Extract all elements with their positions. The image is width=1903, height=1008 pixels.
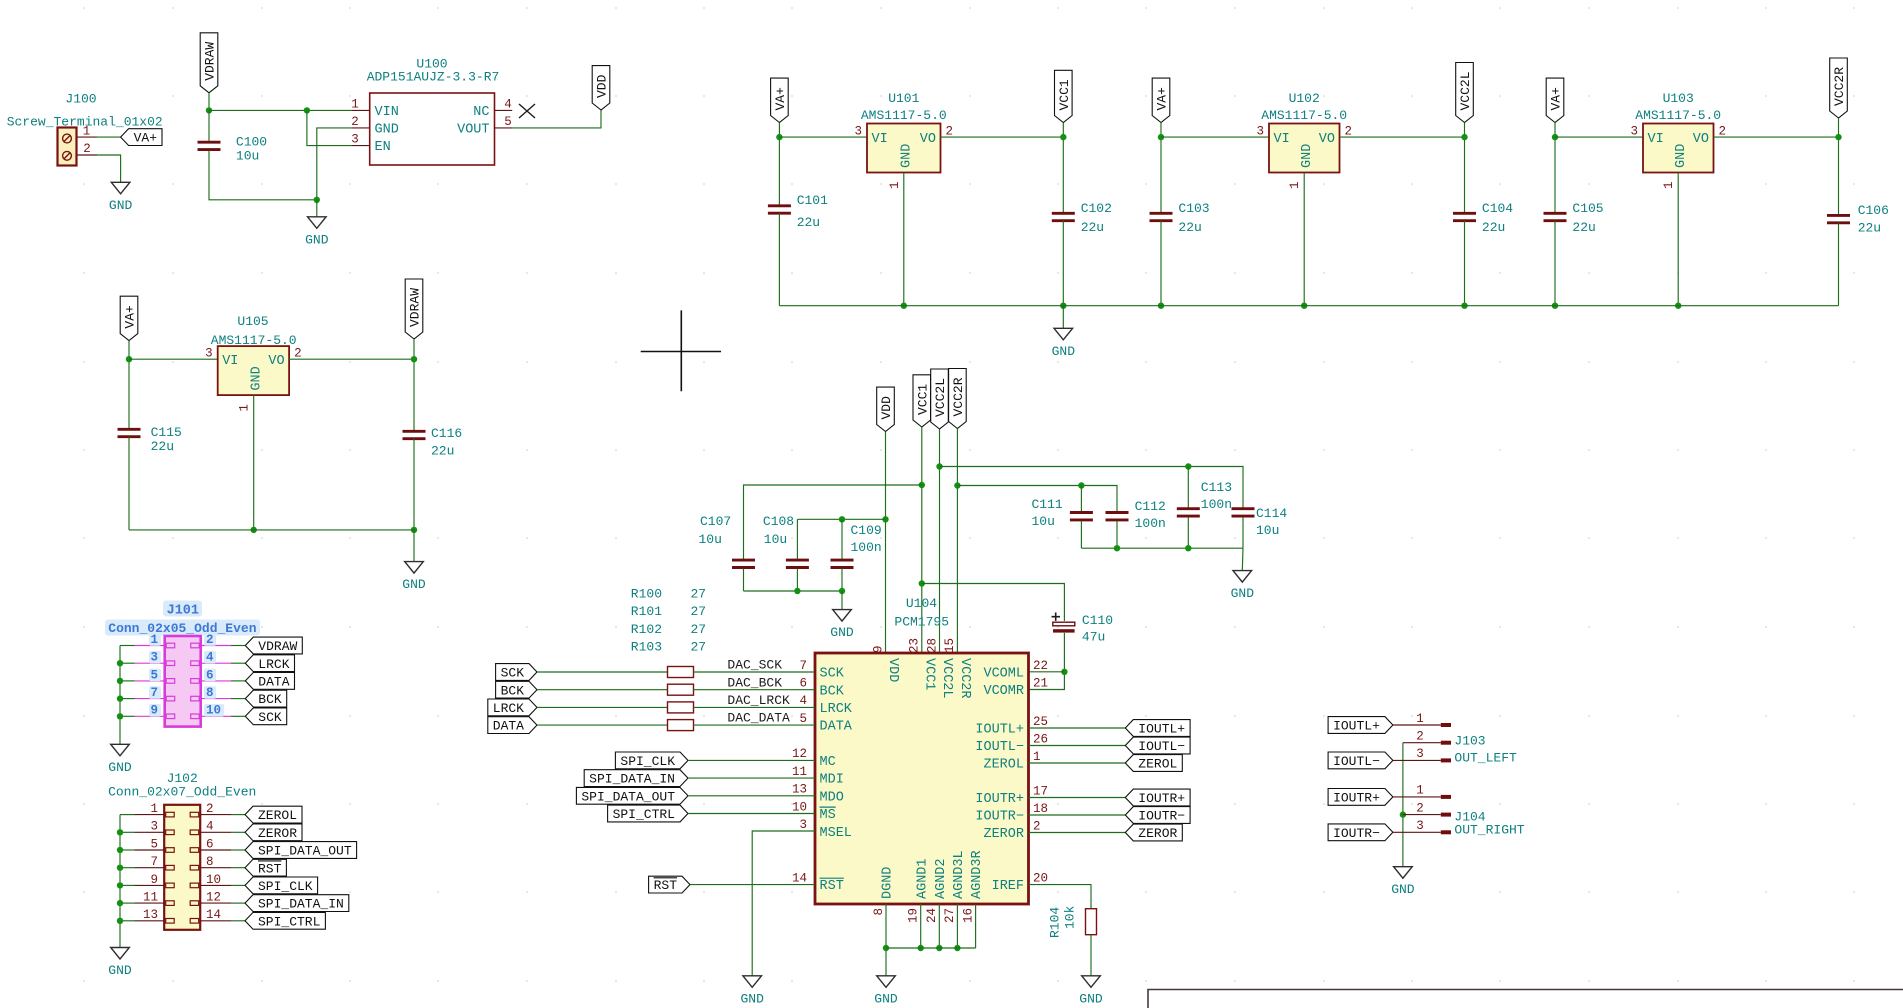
wire J101 to label DATA	[231, 680, 245, 682]
U100 pin 5 stub (VOUT)	[495, 127, 513, 129]
svg-text:27: 27	[691, 640, 707, 655]
J104 pin 2 bar	[1441, 813, 1451, 817]
regulator U101 body	[867, 124, 941, 173]
svg-text:18: 18	[1033, 802, 1048, 816]
svg-text:U104: U104	[906, 596, 937, 611]
svg-text:VA+: VA+	[134, 131, 158, 146]
svg-text:BCK: BCK	[258, 692, 282, 707]
svg-text:C114: C114	[1256, 506, 1287, 521]
power label VCC1 (U104)	[913, 375, 931, 427]
wire J100 pin1 to VA+	[97, 136, 121, 138]
svg-text:AMS1117-5.0: AMS1117-5.0	[1261, 108, 1347, 123]
svg-text:MC: MC	[820, 755, 836, 770]
wire resistor to U104 SCK	[693, 671, 815, 673]
svg-text:3: 3	[150, 820, 158, 834]
capacitor C110 top plate (polarized)	[1053, 622, 1075, 626]
svg-text:R103: R103	[631, 640, 662, 655]
wire J102 to label SPI_CTRL	[231, 920, 245, 922]
svg-text:5: 5	[799, 712, 807, 726]
svg-text:2: 2	[294, 347, 302, 361]
global label VA+ (J100)	[121, 129, 162, 146]
wire VCC2L to C113/C114	[940, 467, 1244, 508]
svg-text:GND: GND	[1391, 882, 1415, 897]
J101 pin 10 stub	[201, 715, 231, 717]
global label IOUTL+ (J103)	[1328, 717, 1393, 734]
svg-text:VA+: VA+	[773, 87, 788, 111]
power label VA+ (rail 3)	[1546, 78, 1564, 122]
J102 pin 3 stub	[135, 831, 165, 833]
capacitor C101	[768, 204, 791, 207]
svg-text:DATA: DATA	[258, 675, 289, 690]
wire U105 gnd stub	[413, 530, 415, 562]
global label VDRAW (J101)	[245, 637, 302, 654]
svg-text:C107: C107	[700, 514, 731, 529]
svg-text:14: 14	[206, 908, 221, 922]
wire VCC1 down to U104 pin 23	[921, 427, 923, 653]
power label VA+ (rail 2)	[1152, 78, 1170, 122]
svg-text:2: 2	[946, 125, 954, 139]
wire VA+ 3 vertical lower	[1554, 221, 1556, 306]
svg-text:LRCK: LRCK	[258, 657, 289, 672]
svg-text:22u: 22u	[151, 439, 174, 454]
J100 pin 2 stub	[77, 154, 97, 156]
svg-text:27: 27	[691, 622, 707, 637]
svg-text:27: 27	[691, 604, 707, 619]
global label IOUTR+ (at U104)	[1125, 789, 1190, 806]
J101 pin 6 number (highlighted)	[204, 669, 216, 682]
wire C107 to VCC1	[744, 485, 922, 559]
svg-text:GND: GND	[830, 625, 854, 640]
power label VCC1 (rail)	[1055, 70, 1073, 122]
global label IOUTR− (at U104)	[1125, 807, 1190, 824]
svg-text:6: 6	[206, 837, 214, 851]
svg-text:VDRAW: VDRAW	[408, 288, 423, 327]
wire J102 to label SPI_DATA_OUT	[231, 849, 245, 851]
svg-text:10u: 10u	[1032, 514, 1055, 529]
svg-text:Conn_02x05_Odd_Even: Conn_02x05_Odd_Even	[108, 621, 256, 636]
svg-text:23: 23	[908, 638, 922, 653]
wire AGND bus	[886, 947, 976, 949]
wire VA+ 1 to U101 VI	[779, 136, 867, 138]
junction U101 gnd at rail	[901, 303, 907, 309]
svg-text:C111: C111	[1032, 497, 1063, 512]
svg-text:U103: U103	[1663, 91, 1694, 106]
J101 pin 2 stub	[201, 645, 231, 647]
svg-text:SCK: SCK	[501, 666, 525, 681]
global label ZEROR (at U104)	[1125, 824, 1182, 841]
power label VDRAW (top left)	[200, 33, 218, 93]
ground GND (J102)	[111, 948, 130, 960]
junction VCC2R at C111 wire	[954, 482, 960, 488]
svg-text:1: 1	[1662, 181, 1676, 189]
regulator U100 body	[370, 93, 495, 165]
junction VCOML node	[1061, 669, 1067, 675]
svg-text:1: 1	[1288, 181, 1302, 189]
svg-text:1: 1	[150, 633, 158, 647]
U102 GND pin wire	[1303, 173, 1305, 306]
capacitor C116	[403, 430, 426, 433]
svg-text:GND: GND	[1674, 144, 1689, 168]
svg-text:16: 16	[961, 908, 975, 923]
capacitor C113	[1177, 507, 1200, 510]
U100 pin 3 stub	[352, 145, 370, 147]
svg-text:VDD: VDD	[885, 658, 900, 682]
wire gnd rail (top right)	[779, 305, 1838, 307]
svg-text:7: 7	[150, 686, 158, 700]
J101 pin 3 stub	[135, 662, 165, 664]
svg-text:1: 1	[83, 125, 91, 139]
wire J104 pin2	[1403, 814, 1441, 816]
wire resistor to U104 DATA	[693, 724, 815, 726]
wire U105 gnd rail	[129, 529, 414, 531]
svg-text:5: 5	[150, 668, 158, 682]
wire J102 gnd bus branch	[120, 920, 135, 922]
svg-text:VO: VO	[920, 132, 936, 147]
junction VA+ 3 at gnd rail	[1552, 303, 1558, 309]
wire SPI_DATA_IN to U104	[688, 777, 815, 779]
J101 pin 7 number (highlighted)	[149, 686, 161, 699]
svg-text:VCC2L: VCC2L	[933, 378, 948, 417]
svg-text:C108: C108	[763, 514, 794, 529]
svg-text:IOUTL+: IOUTL+	[975, 723, 1024, 738]
wire C114 gnd stub	[1241, 548, 1244, 570]
svg-text:C109: C109	[851, 523, 882, 538]
junction VDRAW node	[206, 107, 212, 113]
wire J102 gnd bus branch	[120, 831, 135, 833]
svg-text:22u: 22u	[1178, 220, 1201, 235]
wire DGND down	[885, 904, 887, 976]
global label SPI_DATA_IN (J102)	[245, 895, 349, 912]
wire J101 gnd bus branch	[120, 715, 135, 717]
svg-text:MDI: MDI	[820, 773, 844, 788]
wire VA+ U105 vertical lower	[128, 437, 130, 530]
wire J101 to label BCK	[231, 698, 245, 700]
svg-text:AMS1117-5.0: AMS1117-5.0	[1635, 108, 1721, 123]
J102 pin 13 stub	[135, 920, 165, 922]
junction C111 top	[1078, 482, 1084, 488]
J101 pin 1 number (highlighted)	[149, 633, 161, 646]
svg-text:C116: C116	[431, 426, 462, 441]
wire IOUTR- to J104 pin3	[1393, 831, 1441, 833]
wire U104 IOUTL+ to label	[1029, 727, 1126, 729]
svg-text:25: 25	[1033, 715, 1048, 729]
junction VDRAW U105	[411, 356, 417, 362]
global label LRCK (left)	[488, 699, 537, 716]
svg-text:GND: GND	[900, 144, 915, 168]
svg-text:VOUT: VOUT	[457, 123, 489, 138]
wire U105 VO to VDRAW	[289, 358, 414, 360]
power label VDRAW (U105)	[405, 279, 423, 339]
svg-text:8: 8	[872, 908, 886, 916]
svg-text:IOUTR+: IOUTR+	[1138, 791, 1185, 806]
svg-text:4: 4	[799, 694, 807, 708]
power label VCC2R (U104)	[949, 369, 967, 429]
connector J100 screw circle pin1	[63, 134, 72, 143]
connector J100 screw circle pin2	[63, 151, 72, 160]
wire BCK to resistor	[537, 689, 668, 691]
svg-text:1: 1	[150, 802, 158, 816]
svg-text:C110: C110	[1082, 613, 1113, 628]
junction C112 gnd	[1114, 545, 1120, 551]
svg-text:13: 13	[792, 783, 807, 797]
svg-text:10u: 10u	[236, 148, 259, 163]
wire J100 pin2 to GND	[97, 155, 121, 182]
J103 pin 1 bar	[1441, 723, 1451, 727]
wire J102 to label SPI_CLK	[231, 884, 245, 886]
wire VA+ 3 to U103 VI	[1555, 136, 1643, 138]
svg-text:VDRAW: VDRAW	[258, 639, 297, 654]
svg-text:VCC1: VCC1	[1057, 79, 1072, 110]
svg-text:22u: 22u	[1572, 220, 1595, 235]
svg-text:C104: C104	[1482, 201, 1513, 216]
svg-text:AGND3L: AGND3L	[952, 850, 967, 899]
svg-text:9: 9	[871, 645, 885, 653]
regulator U102 body	[1269, 124, 1340, 173]
power label VCC2L (U104)	[931, 369, 949, 429]
svg-text:DGND: DGND	[881, 867, 896, 899]
regulator U105 body	[218, 346, 289, 395]
global label ZEROR (J102)	[245, 824, 302, 841]
svg-text:IOUTR−: IOUTR−	[975, 810, 1024, 825]
global label BCK (left)	[496, 681, 537, 698]
wire J101 left gnd bus	[120, 645, 135, 647]
J102 pin 7 stub	[135, 867, 165, 869]
svg-text:GND: GND	[109, 198, 133, 213]
global label ZEROL (at U104)	[1125, 755, 1182, 772]
svg-text:SPI_CTRL: SPI_CTRL	[613, 807, 675, 822]
svg-text:C106: C106	[1858, 203, 1889, 218]
wire VDRAW node down to C100	[208, 110, 210, 141]
wire C108 to VDD horizontal	[797, 518, 885, 520]
global label SPI_DATA_IN (SPI)	[584, 770, 688, 787]
wire C100 bottom to ground wire	[209, 151, 317, 200]
junction C113 gnd	[1185, 545, 1191, 551]
global label SPI_CTRL (J102)	[245, 912, 325, 929]
svg-text:17: 17	[1033, 784, 1048, 798]
svg-text:3: 3	[1630, 125, 1638, 139]
svg-text:VCOMR: VCOMR	[983, 684, 1024, 699]
svg-text:3: 3	[1416, 747, 1424, 761]
svg-text:SPI_CLK: SPI_CLK	[620, 754, 675, 769]
wire VA+ 3 vertical upper	[1554, 123, 1556, 214]
global label IOUTL- (J103)	[1328, 752, 1393, 769]
svg-text:VI: VI	[1274, 132, 1290, 147]
svg-text:2: 2	[1033, 819, 1041, 833]
wire J101 gnd bus branch	[120, 698, 135, 700]
no-connect X at pin 4	[519, 104, 535, 118]
svg-text:J100: J100	[65, 92, 96, 107]
wire C110 bottom to VCOM	[1029, 633, 1065, 690]
wire resistor to U104 LRCK	[693, 706, 815, 708]
junction J101 gnd bus	[117, 695, 123, 701]
wire J102 to label RST	[231, 867, 245, 869]
junction J101 gnd bus	[117, 660, 123, 666]
svg-text:MS: MS	[820, 808, 836, 823]
junction VCC2L rail	[1461, 134, 1467, 140]
svg-text:SPI_CLK: SPI_CLK	[258, 879, 313, 894]
junction VA+ 2 at gnd rail	[1158, 303, 1164, 309]
svg-text:2: 2	[206, 802, 214, 816]
U103 GND pin wire	[1677, 173, 1679, 306]
svg-text:3: 3	[150, 651, 158, 665]
J101 pin 5 stub	[135, 680, 165, 682]
wire VCC2R vertical lower	[1838, 223, 1840, 306]
svg-text:24: 24	[925, 908, 939, 923]
svg-text:22u: 22u	[1858, 221, 1881, 236]
svg-text:2: 2	[206, 633, 214, 647]
junction VDD at C108/C109 wire	[882, 516, 888, 522]
global label ZEROL (J102)	[245, 806, 302, 823]
svg-text:SPI_DATA_OUT: SPI_DATA_OUT	[581, 789, 675, 804]
wire C113 top stub	[1187, 467, 1189, 508]
svg-text:100n: 100n	[1135, 516, 1166, 531]
junction AGND3L	[954, 945, 960, 951]
junction J101 gnd bus	[117, 713, 123, 719]
svg-text:Conn_02x07_Odd_Even: Conn_02x07_Odd_Even	[108, 785, 256, 800]
wire VDD down to U104 pin 9	[885, 432, 887, 654]
junction J102 gnd bus	[117, 847, 123, 853]
svg-text:4: 4	[206, 651, 214, 665]
svg-text:DATA: DATA	[493, 719, 524, 734]
J103 pin 3 bar	[1441, 758, 1451, 762]
J102 pin 11 stub	[135, 902, 165, 904]
sheet title block corner	[1148, 990, 1903, 1008]
J102 pin 9 stub	[135, 884, 165, 886]
svg-text:GND: GND	[740, 991, 764, 1006]
svg-text:IOUTL−: IOUTL−	[1138, 739, 1185, 754]
global label IOUTR+ (J104)	[1328, 789, 1393, 806]
wire J101 gnd bus branch	[120, 662, 135, 664]
wire VA+ U105 vertical upper	[128, 341, 130, 430]
J102 pin 5 stub	[135, 849, 165, 851]
J102 pin 2 stub	[200, 814, 231, 816]
junction J102 gnd bus	[117, 900, 123, 906]
power label VA+ (rail 1)	[771, 78, 789, 122]
svg-text:DAC_LRCK: DAC_LRCK	[727, 693, 790, 708]
svg-text:12: 12	[206, 891, 221, 905]
svg-text:10: 10	[206, 704, 221, 718]
wire VCC1 vertical upper	[1062, 123, 1064, 214]
svg-text:VCC1: VCC1	[915, 384, 930, 415]
svg-text:GND: GND	[108, 760, 132, 775]
svg-text:27: 27	[943, 908, 957, 923]
junction VA+ 1	[776, 134, 782, 140]
capacitor C103	[1150, 212, 1173, 215]
svg-text:2: 2	[351, 115, 359, 129]
svg-text:GND: GND	[402, 577, 426, 592]
svg-text:R101: R101	[631, 604, 662, 619]
svg-text:20: 20	[1033, 871, 1048, 885]
svg-text:2: 2	[1345, 125, 1353, 139]
svg-text:VDRAW: VDRAW	[203, 42, 218, 81]
junction AGND2	[936, 945, 942, 951]
svg-text:VCC2R: VCC2R	[957, 658, 972, 699]
wire J102 gnd bus branch	[120, 867, 135, 869]
wire J102 gnd bus branch	[120, 849, 135, 851]
svg-text:26: 26	[1033, 732, 1048, 746]
junction VA+ U105	[126, 356, 132, 362]
global label LRCK (J101)	[245, 655, 294, 672]
J101 pin 5 number (highlighted)	[149, 669, 161, 682]
wire IOUTR+ to J104 pin1	[1393, 796, 1441, 798]
svg-text:1: 1	[1416, 784, 1424, 798]
wire U101 VO to VCC1	[941, 136, 1064, 138]
svg-text:3: 3	[205, 347, 213, 361]
svg-text:DAC_SCK: DAC_SCK	[727, 658, 782, 673]
J101 pin 9 stub	[135, 715, 165, 717]
wire VCOML pin	[1029, 671, 1065, 673]
junction AGND1	[918, 945, 924, 951]
resistor R10x on LRCK line	[668, 702, 694, 713]
svg-text:VI: VI	[872, 132, 888, 147]
svg-text:VCC2L: VCC2L	[939, 658, 954, 699]
junction J104 pin2 gnd	[1400, 811, 1406, 817]
junction DGND bus	[883, 945, 889, 951]
svg-text:AGND3R: AGND3R	[970, 850, 985, 899]
global label DATA (J101)	[245, 673, 294, 690]
wire J101 to label LRCK	[231, 662, 245, 664]
svg-text:U105: U105	[237, 314, 268, 329]
wire IOUTL+ to J103 pin1	[1393, 724, 1441, 726]
svg-text:SPI_DATA_OUT: SPI_DATA_OUT	[258, 844, 352, 859]
svg-text:U101: U101	[888, 91, 919, 106]
J101 pin 7 stub	[135, 698, 165, 700]
capacitor C114	[1232, 507, 1255, 510]
svg-text:C105: C105	[1572, 201, 1603, 216]
svg-text:ZEROR: ZEROR	[258, 826, 297, 841]
svg-text:10: 10	[792, 800, 807, 814]
svg-text:SPI_CTRL: SPI_CTRL	[258, 914, 320, 929]
svg-text:VCC1: VCC1	[921, 658, 936, 690]
J102 pin 1 stub	[135, 814, 165, 816]
svg-text:7: 7	[799, 659, 807, 673]
wire VCC1 to C110	[922, 584, 1065, 622]
wire EN tie	[307, 110, 352, 145]
junction VA+ 2	[1158, 134, 1164, 140]
power label VDD (top)	[592, 66, 610, 110]
connector J100 body	[58, 128, 77, 166]
svg-text:EN: EN	[375, 140, 391, 155]
svg-text:GND: GND	[1300, 144, 1315, 168]
wire RST to U104	[690, 884, 815, 886]
wire J103 pin2	[1403, 742, 1441, 744]
svg-text:VI: VI	[1648, 132, 1664, 147]
svg-text:11: 11	[792, 765, 807, 779]
svg-text:OUT_LEFT: OUT_LEFT	[1454, 751, 1517, 766]
svg-text:2: 2	[83, 142, 91, 156]
resistor R10x on BCK line	[668, 684, 694, 695]
svg-text:RST: RST	[654, 878, 678, 893]
wire U104 IOUTR− to label	[1029, 814, 1126, 816]
wire SCK to resistor	[537, 671, 668, 673]
ground GND (C107-C109)	[833, 610, 852, 622]
J102 pin 10 stub	[200, 884, 231, 886]
wire VCC2L down to U104 pin 28	[939, 429, 941, 653]
wire IOUTL- to J103 pin3	[1393, 759, 1441, 761]
J101 pin 6 stub	[201, 680, 231, 682]
global label RST (J102)	[245, 859, 286, 876]
svg-text:LRCK: LRCK	[493, 701, 524, 716]
svg-text:IOUTL+: IOUTL+	[1138, 722, 1185, 737]
wire VDRAW U105 vertical upper	[413, 339, 415, 431]
wire U104 ZEROL to label	[1029, 762, 1126, 764]
global label SPI_CLK (SPI)	[615, 752, 688, 769]
wire VOUT to VDD	[512, 110, 601, 128]
svg-text:14: 14	[792, 871, 807, 885]
junction J102 gnd bus	[117, 882, 123, 888]
J101 pin 4 number (highlighted)	[204, 651, 216, 664]
wire U104 ZEROR to label	[1029, 832, 1126, 834]
